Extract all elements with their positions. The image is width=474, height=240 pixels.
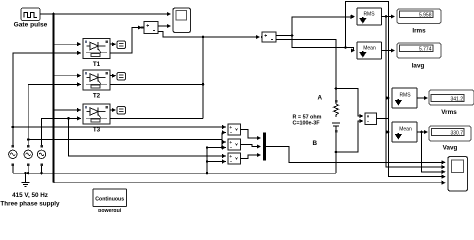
terminator for T3 m xyxy=(110,107,126,115)
Mean block xyxy=(357,42,382,59)
node VM minus to neutral xyxy=(206,172,208,174)
wire Irms to Scope1 input 2 xyxy=(386,17,445,168)
node Irms scope tap xyxy=(385,15,388,18)
pulse generator Gate pulse xyxy=(14,8,48,29)
wire Vavg to Scope1 input 3 xyxy=(422,132,446,172)
wire Mean to display Iavg xyxy=(382,50,395,52)
node i signal junction xyxy=(291,34,294,37)
wire I1 out to DC bus xyxy=(158,32,260,38)
node VM minus join xyxy=(221,146,223,148)
svg-text:T3: T3 xyxy=(93,127,101,134)
node gate bus junction xyxy=(52,13,55,16)
svg-text:B: B xyxy=(313,140,318,147)
svg-text:Mean: Mean xyxy=(363,46,376,52)
AC source phase A xyxy=(9,145,17,166)
wire cathode bus vertical xyxy=(202,37,204,118)
terminator for T1 m xyxy=(110,41,126,49)
svg-text:RMS: RMS xyxy=(363,12,375,18)
wire RMS to display Irms xyxy=(382,16,395,18)
node VM3 minus tap xyxy=(206,160,208,162)
wire gate to T3 g xyxy=(54,109,81,111)
wire I1 signal to Scope input 2 xyxy=(158,25,171,27)
svg-text:Iavg: Iavg xyxy=(412,63,425,70)
node neutral B xyxy=(27,172,29,174)
svg-text:Gate pulse: Gate pulse xyxy=(14,22,48,29)
svg-text:T1: T1 xyxy=(93,61,101,68)
wire v to Mean1 xyxy=(389,131,390,133)
svg-text:C=100e-3F: C=100e-3F xyxy=(292,121,320,127)
voltage measurement block V load xyxy=(365,113,377,125)
display Vavg xyxy=(429,126,471,152)
svg-text:RMS: RMS xyxy=(399,93,411,99)
wire gate to Scope1 input 5 xyxy=(54,182,446,184)
node phase B tap xyxy=(27,138,30,141)
powergui block xyxy=(93,189,127,214)
wire VM1 out to mux xyxy=(241,130,261,139)
wire VM2 minus xyxy=(207,147,226,149)
wire RMS1 to display Vrms xyxy=(417,97,428,99)
display Vrms xyxy=(429,90,474,116)
wire V load signal bus xyxy=(377,98,389,132)
wire gate to T1 g xyxy=(54,43,81,45)
wire neutral bus xyxy=(13,172,336,174)
svg-text:330.7: 330.7 xyxy=(450,130,463,136)
wire VM minus bus xyxy=(206,148,208,174)
mux Mux xyxy=(263,133,266,161)
thyristor T1 xyxy=(83,39,110,69)
display Irms xyxy=(397,9,441,35)
node load bottom tap xyxy=(335,151,338,154)
wire mux to Scope1 input 1 xyxy=(266,147,445,163)
svg-text:Mean: Mean xyxy=(399,127,412,133)
thyristor T2 xyxy=(83,70,110,100)
node T2 k junction xyxy=(202,83,205,86)
wire VM2 out to mux xyxy=(241,145,261,147)
wire phase B to T2 a xyxy=(28,84,81,145)
wire I2 signal out xyxy=(276,35,292,37)
series RLC branch load xyxy=(332,100,340,133)
wire I2 out to load xyxy=(276,40,336,102)
node i scope tap xyxy=(344,46,347,49)
wire phase A to T1 a xyxy=(13,53,81,145)
current measurement block I2 xyxy=(261,32,276,42)
svg-text:Three phase supply: Three phase supply xyxy=(0,201,60,208)
wire phase A to VM1 plus xyxy=(13,126,226,128)
svg-text:341.2: 341.2 xyxy=(450,96,463,102)
wire T2 k to bus xyxy=(110,83,203,85)
node neutral C xyxy=(40,172,42,174)
wire VM3 minus xyxy=(207,161,226,163)
ground xyxy=(21,173,29,187)
wire v to RMS1 xyxy=(389,97,390,99)
RMS1 block xyxy=(392,88,417,108)
node neutral ground xyxy=(24,172,26,174)
AC source phase B xyxy=(24,145,32,166)
wire i signal to Mean xyxy=(292,36,355,51)
Mean1 block xyxy=(392,122,417,142)
svg-text:Continuous: Continuous xyxy=(95,197,124,203)
display Iavg xyxy=(397,43,441,70)
svg-text:Vrms: Vrms xyxy=(441,109,457,116)
svg-text:powergui: powergui xyxy=(98,208,122,212)
wire T3 k to bus xyxy=(110,117,203,119)
wire Mean1 to display Vavg xyxy=(417,131,428,133)
scope Scope xyxy=(173,8,191,33)
node phase A tap xyxy=(12,126,15,129)
voltage measurement VM3 xyxy=(228,153,241,164)
wire gate bus (vertical) xyxy=(53,14,55,183)
wire load bottom to neutral xyxy=(335,133,337,174)
wire i signal to Scope1 input 4 xyxy=(346,2,446,177)
voltage measurement VM1 xyxy=(228,124,241,135)
svg-text:5.958: 5.958 xyxy=(419,13,432,19)
node Vavg scope tap xyxy=(420,131,423,134)
wire phase B to VM2 plus xyxy=(28,140,226,143)
current measurement block I1 xyxy=(141,22,158,34)
terminator for T2 m xyxy=(110,73,126,81)
scope Scope1 xyxy=(448,157,468,192)
wire phase C to VM3 plus xyxy=(69,118,226,156)
wire VM3 out to mux xyxy=(241,155,261,159)
wire gate to T2 g xyxy=(54,75,81,77)
thyristor T3 xyxy=(83,104,110,134)
RMS block xyxy=(351,8,382,25)
node cathode bus junction xyxy=(202,36,205,39)
wire phase C to T3 a xyxy=(42,118,81,145)
node VM minus bus top xyxy=(206,146,208,148)
wire VM1 minus xyxy=(222,133,226,148)
wire i signal to RMS xyxy=(292,17,354,36)
svg-text:Irms: Irms xyxy=(412,28,426,35)
svg-text:A: A xyxy=(318,95,323,102)
svg-text:T2: T2 xyxy=(93,93,101,100)
voltage measurement VM2 xyxy=(228,139,241,150)
node phase C tap xyxy=(67,117,70,120)
wire load bottom to voltage measurement minus xyxy=(336,121,363,152)
AC source phase C xyxy=(37,145,45,166)
wire load top to voltage measurement plus xyxy=(336,89,363,116)
svg-text:415 V, 50 Hz: 415 V, 50 Hz xyxy=(12,192,48,199)
node load top tap xyxy=(335,87,338,90)
svg-text:Vavg: Vavg xyxy=(443,145,458,152)
svg-text:5.774: 5.774 xyxy=(419,47,432,53)
wire gate pulse to Scope input 1 xyxy=(40,13,171,15)
wire sources to neutral xyxy=(13,166,42,173)
wire T1 k to current measurement xyxy=(110,28,142,53)
